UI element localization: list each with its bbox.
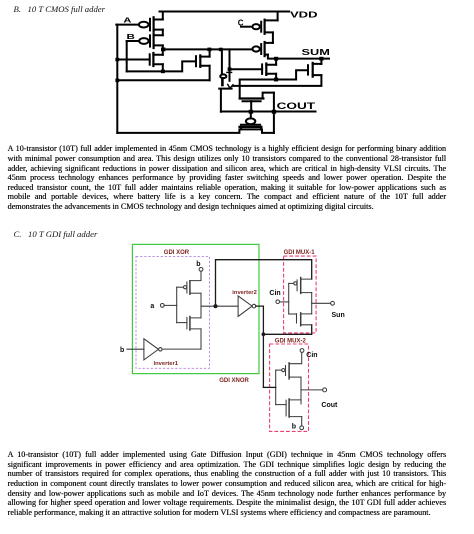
inverter1 bubble: [159, 348, 163, 352]
node XOR output junction: [213, 304, 217, 308]
transistor U1 PMOS of XOR: [184, 281, 202, 295]
GDI XOR outer green box: [132, 244, 259, 373]
wire COUT node horizontal: [221, 111, 316, 113]
wire node N1 horizontal: [163, 48, 253, 50]
wire XOR drain column: [200, 293, 202, 318]
inverter1 triangle: [144, 339, 159, 360]
wire Q2 drain to node N1: [162, 45, 164, 49]
svg-text:GDI XOR: GDI XOR: [164, 250, 190, 256]
inverter2 bubble: [252, 304, 256, 308]
node junction B/Q3: [161, 70, 165, 74]
node junction COUT riser: [272, 110, 276, 114]
terminal Cin MUX-1: [276, 300, 280, 304]
node junction on N1 at Q4: [207, 48, 211, 52]
wire U6 gate: [276, 404, 286, 406]
node junction on N1 at pass gate: [219, 48, 223, 52]
wire Q3 drain up to N1: [162, 49, 164, 54]
wire bottom rail: [117, 129, 274, 133]
terminal b top: [199, 268, 203, 272]
svg-text:a: a: [150, 303, 154, 310]
svg-text:COUT: COUT: [277, 101, 316, 111]
terminal Sum: [331, 301, 335, 305]
transistor Q5 PMOS gate C: [252, 20, 277, 34]
terminal a: [160, 304, 164, 308]
pass gate PG1 bar: [221, 78, 224, 85]
wire inverter2 output XNOR: [256, 306, 264, 387]
terminal Cin MUX-2: [300, 349, 304, 353]
wire MUX-1 gate column: [288, 283, 290, 314]
node junction A bus gate tap: [115, 58, 119, 62]
svg-text:Inverter1: Inverter1: [154, 361, 179, 367]
wire U2 source down: [200, 329, 202, 349]
svg-text:Cout: Cout: [321, 402, 338, 409]
svg-text:b: b: [196, 261, 200, 268]
node junction A bus lower tap: [115, 79, 119, 83]
svg-text:SUM: SUM: [302, 48, 330, 57]
node SUM junction: [319, 57, 323, 61]
wire Q8 source return: [233, 75, 322, 86]
wire MUX-2 drain column: [300, 377, 302, 404]
svg-text:GDI MUX-1: GDI MUX-1: [284, 250, 316, 256]
terminal Cout: [323, 388, 327, 392]
svg-text:A: A: [123, 16, 132, 25]
wire Sum output: [312, 302, 331, 304]
wire B node to Q4 gate: [127, 61, 196, 71]
wire right riser to COUT node: [273, 93, 275, 133]
svg-text:inverter2: inverter2: [232, 290, 256, 296]
GDI MUX-1 red dashed box: [284, 256, 317, 333]
wire A vertical bus: [116, 25, 118, 133]
wire Q9 source to COUT riser: [263, 93, 274, 99]
node N2 junction: [274, 57, 278, 61]
wire b to U1 source: [190, 271, 201, 280]
wire node N3 horizontal: [240, 70, 308, 98]
wire Q3 gate from A bus: [117, 59, 149, 61]
wire pass gate bottom: [219, 89, 231, 112]
svg-text:Sun: Sun: [332, 312, 345, 319]
transistor Q3 NMOS: [150, 53, 163, 66]
svg-text:b: b: [292, 423, 296, 430]
svg-text:GDI MUX-2: GDI MUX-2: [275, 339, 307, 345]
transistor U6 NMOS of MUX-2: [286, 399, 302, 417]
wire Q5 drain to Q6 source: [272, 32, 274, 43]
svg-text:B: B: [127, 32, 135, 41]
wire Q4 source down: [209, 66, 211, 81]
wire Q7 gate: [230, 68, 263, 70]
pass gate PG1 bubble: [220, 74, 226, 78]
wire U2 gate to column: [177, 322, 187, 324]
wire Cin to U5 source: [289, 352, 302, 363]
transistor Q6 PMOS: [252, 42, 272, 56]
wire Q1 source to VDD: [162, 12, 164, 20]
svg-text:Cin: Cin: [269, 290, 280, 297]
node junction Q7 gate tap: [228, 67, 232, 71]
transistor Q10 PMOS carry: [240, 112, 262, 130]
wire Q6 drain to SUM node: [268, 55, 276, 59]
wire XNOR to MUX-2 gates: [263, 386, 275, 388]
svg-text:b: b: [120, 347, 124, 354]
wire Q7 source down: [275, 74, 277, 80]
transistor Q4 NMOS: [196, 55, 210, 66]
inverter2 triangle: [238, 296, 252, 317]
transistor U5 PMOS of MUX-2: [276, 363, 301, 379]
wire Q1 drain to Q2 source: [162, 30, 164, 36]
transistor Q2 PMOS gate B: [139, 34, 163, 48]
wire U1 gate to column: [177, 286, 184, 288]
node XNOR junction: [262, 332, 266, 336]
VDD rail: [160, 11, 290, 13]
wire Q8 drain to SUM: [320, 59, 322, 64]
pass gate PG2 tick: [228, 84, 233, 88]
wire XOR output: [201, 305, 238, 307]
wire XOR gate column: [176, 287, 178, 323]
wire XNOR to U4 source: [263, 325, 311, 335]
transistor U4 NMOS of MUX-1: [289, 313, 312, 326]
wire MUX-1 drain column: [311, 293, 313, 314]
transistor Q1 PMOS gate A: [139, 17, 163, 31]
wire Cin to MUX-1 gates: [280, 301, 289, 303]
pass gate PG2 cap: [227, 71, 232, 73]
transistor U3 PMOS of MUX-1: [289, 278, 312, 294]
wire inverter1 output: [162, 348, 201, 350]
wire A input: [116, 24, 139, 26]
svg-text:VDD: VDD: [290, 10, 318, 20]
transistor Q7 NMOS: [262, 64, 276, 75]
wire Q3 source down: [162, 64, 164, 71]
wire N2 to Q7 drain: [275, 59, 277, 65]
pass gate PG2 column: [229, 49, 231, 80]
wire a input: [164, 304, 177, 306]
svg-text:GDI XNOR: GDI XNOR: [219, 378, 249, 384]
transistor Q8 NMOS sum driver: [308, 63, 321, 77]
wire mid rail: [117, 79, 209, 81]
transistor Q9 NMOS carry: [240, 99, 264, 111]
GDI MUX-2 red dashed box: [270, 344, 309, 431]
wire MUX-2 gate column: [275, 370, 277, 405]
terminal b bottom: [300, 426, 304, 430]
pass gate PG1 gate column: [221, 49, 223, 74]
wire XOR out riser: [216, 260, 312, 307]
wire b to inverter1: [127, 348, 144, 350]
wire B input: [127, 40, 140, 42]
node N1 junction: [161, 48, 165, 52]
wire B vertical: [126, 41, 128, 71]
GDI XOR inner purple dashed box: [136, 256, 210, 368]
node junction D gate/bubble: [249, 110, 253, 114]
transistor U2 NMOS of XOR: [187, 317, 201, 331]
svg-text:Cin: Cin: [306, 352, 317, 359]
wire U6 source to b: [301, 417, 303, 426]
wire Q4 drain up to N1: [209, 49, 211, 56]
node N3 junction: [274, 78, 278, 82]
wire Q5 source to VDD: [277, 12, 279, 21]
wire SUM output: [276, 58, 329, 60]
wire C input: [241, 26, 252, 28]
wire Cout output: [301, 389, 323, 391]
